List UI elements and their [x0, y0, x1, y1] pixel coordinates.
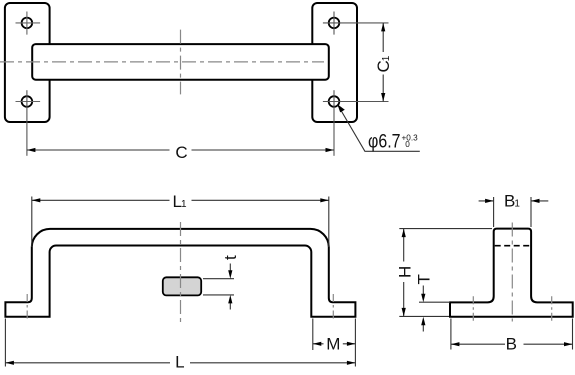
- dimension M line: [313, 343, 356, 345]
- svg-text:φ6.7: φ6.7: [368, 130, 401, 152]
- svg-text:M: M: [326, 334, 340, 353]
- base hole centerline left: [472, 296, 474, 321]
- left foot centerline: [26, 294, 28, 322]
- right mounting plate (top view): [312, 3, 357, 122]
- svg-text:+0.3: +0.3: [402, 133, 419, 142]
- dimension L1 line: [32, 199, 329, 201]
- crosshair hole top-left: [16, 12, 41, 35]
- horizontal centerline: [0, 61, 324, 63]
- dimension C arrows: [27, 148, 36, 152]
- dimension L1 arrows: [32, 198, 41, 202]
- left mounting plate (top view): [5, 3, 50, 122]
- dimension B1 extension lines: [494, 197, 531, 227]
- dimension B line: [451, 343, 573, 345]
- side profile (post on base): [450, 229, 573, 317]
- dimension H extension lines: [399, 228, 492, 230]
- grip bar (top view): [32, 44, 329, 80]
- svg-text:0: 0: [405, 140, 410, 149]
- dimension B arrows: [451, 342, 460, 346]
- svg-text:H: H: [395, 266, 414, 278]
- hidden grip line (dashed): [495, 245, 530, 247]
- base hole centerline right: [551, 296, 553, 321]
- vertical centerline (top view): [180, 30, 182, 95]
- svg-text:T: T: [415, 274, 434, 284]
- hole top-right: [329, 18, 340, 29]
- leader arrowhead: [337, 104, 345, 112]
- dimension B1 arrows (inward): [485, 199, 494, 203]
- dimension L arrows: [5, 361, 14, 365]
- hole bottom-right: [329, 96, 340, 107]
- dimension M arrows: [313, 342, 322, 346]
- svg-text:t: t: [221, 255, 240, 260]
- hole top-left: [22, 18, 33, 29]
- dimension B1 line: [479, 200, 549, 202]
- post axis centerline: [511, 223, 513, 322]
- dimension t arrows (outside): [229, 264, 231, 310]
- dimension C1 line: [382, 23, 384, 102]
- leader line to hole: [338, 105, 420, 151]
- dimension H arrows: [402, 229, 406, 238]
- svg-text:C: C: [175, 143, 187, 162]
- crosshair hole bottom-right: [323, 101, 389, 103]
- dimension B extension lines: [451, 319, 573, 350]
- dimension t extension lines: [203, 279, 234, 295]
- dimension T arrows (outside): [422, 286, 424, 332]
- dimension H line: [403, 229, 405, 317]
- dimension L extension line (left): [4, 319, 6, 367]
- dimension C1 arrows: [381, 23, 385, 32]
- grip cross-section (gray): [163, 277, 201, 295]
- dimension L1 extension lines: [32, 197, 329, 248]
- dimension M extension lines: [312, 319, 314, 351]
- dimension L line: [5, 362, 355, 364]
- svg-text:B: B: [506, 335, 517, 354]
- hole bottom-left: [22, 96, 33, 107]
- handle silhouette (front view): [5, 229, 355, 317]
- dimension C line: [27, 149, 334, 151]
- dimension T extension line: [419, 301, 450, 303]
- center vertical centerline (front view): [180, 222, 182, 324]
- svg-text:L: L: [175, 353, 184, 372]
- right foot centerline: [332, 294, 334, 322]
- crosshair hole bottom-left (vertical doubles as C extension): [16, 101, 41, 103]
- crosshair hole top-right (horizontal doubles as C1 extension): [323, 12, 389, 35]
